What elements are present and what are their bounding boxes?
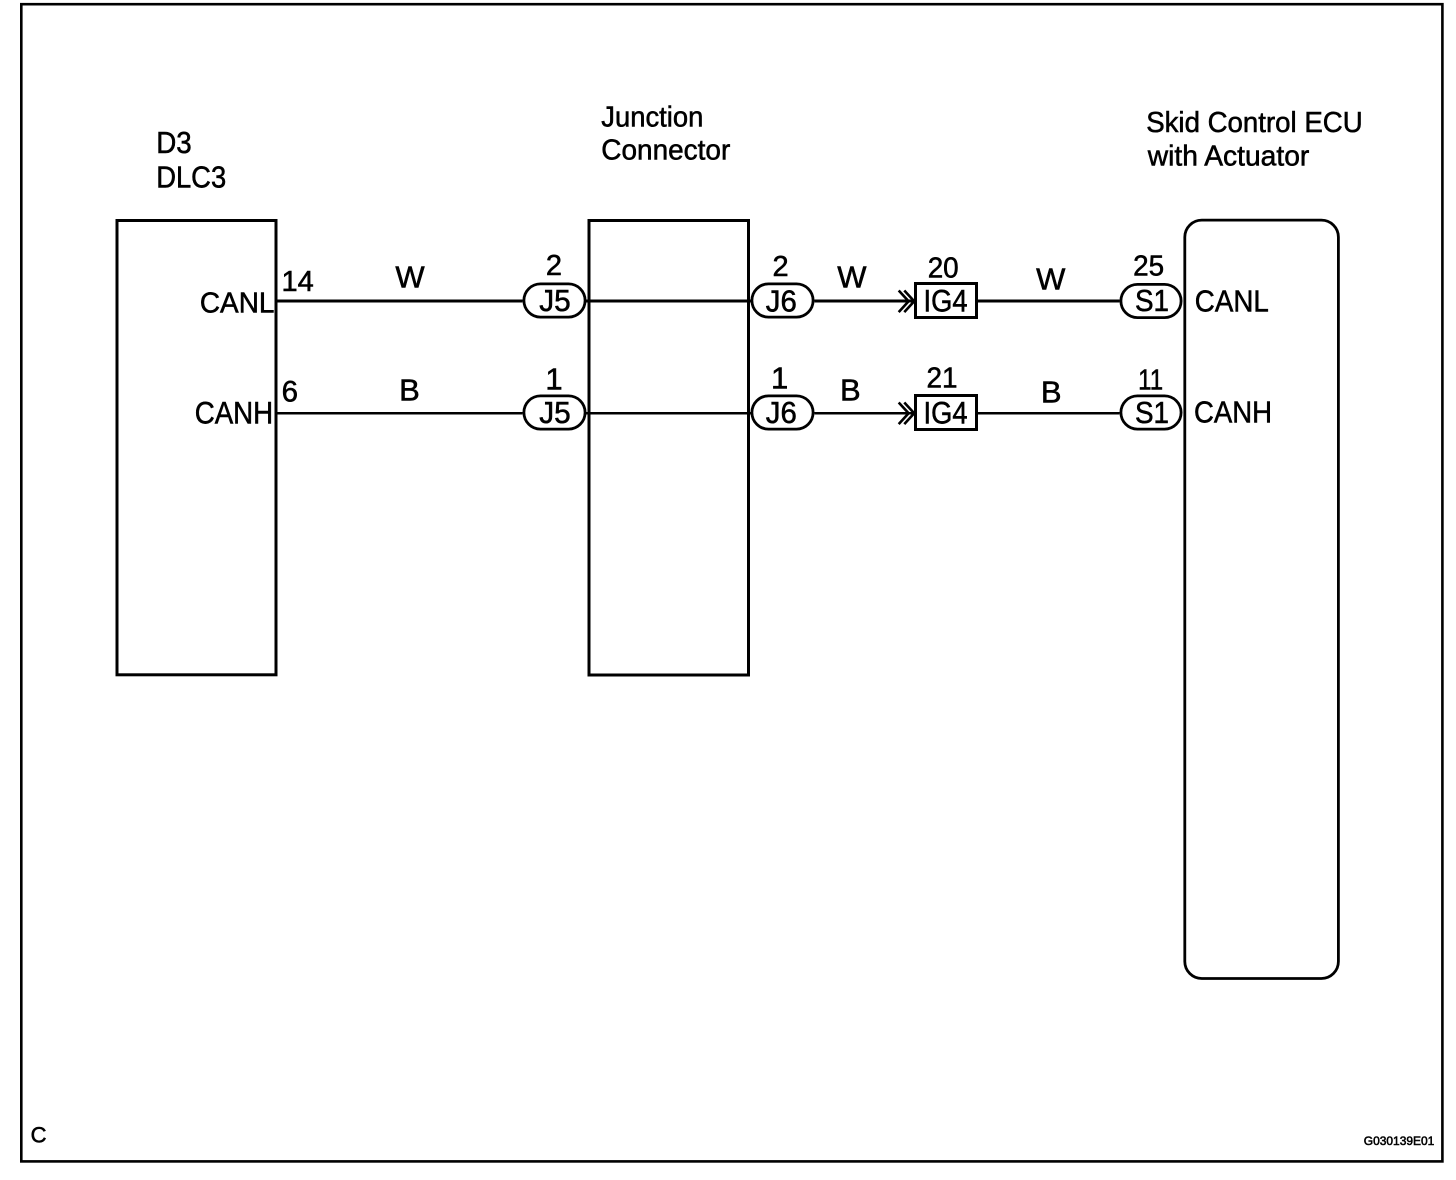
svg-text:G030139E01: G030139E01 [1364,1134,1435,1148]
svg-text:J5: J5 [539,283,571,318]
svg-text:CANH: CANH [1194,396,1272,430]
svg-text:2: 2 [773,251,789,283]
svg-text:25: 25 [1133,250,1164,282]
svg-text:Skid Control ECU: Skid Control ECU [1146,107,1363,139]
svg-text:C: C [31,1123,47,1148]
svg-text:J5: J5 [539,395,571,430]
svg-text:S1: S1 [1135,395,1169,430]
svg-text:1: 1 [771,360,788,395]
svg-text:CANH: CANH [195,395,274,431]
svg-text:Connector: Connector [601,134,730,166]
svg-text:D3: D3 [156,125,192,160]
svg-text:20: 20 [928,252,959,284]
svg-text:with Actuator: with Actuator [1147,140,1310,172]
svg-text:21: 21 [927,363,958,395]
svg-text:11: 11 [1138,365,1163,397]
svg-text:B: B [840,372,861,407]
svg-text:2: 2 [546,250,562,282]
svg-text:W: W [837,260,867,295]
svg-text:DLC3: DLC3 [156,160,226,195]
svg-text:W: W [1036,261,1066,296]
svg-text:B: B [399,373,420,408]
svg-text:J6: J6 [766,283,797,318]
svg-text:S1: S1 [1135,283,1169,318]
svg-text:1: 1 [545,361,562,396]
svg-text:Junction: Junction [601,102,703,134]
svg-text:6: 6 [282,376,298,409]
svg-text:14: 14 [282,266,314,298]
svg-text:W: W [395,260,425,295]
svg-text:IG4: IG4 [924,395,968,431]
svg-text:B: B [1041,375,1062,410]
svg-text:CANL: CANL [200,288,275,320]
svg-text:IG4: IG4 [924,283,968,319]
svg-text:J6: J6 [766,395,797,430]
svg-text:CANL: CANL [1195,283,1269,318]
